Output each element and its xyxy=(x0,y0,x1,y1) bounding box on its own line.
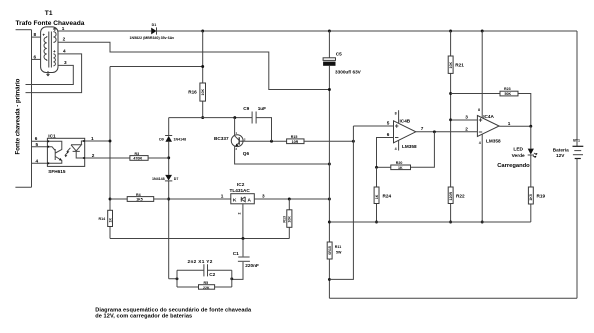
diode D9 xyxy=(159,118,186,142)
svg-text:Bateria: Bateria xyxy=(553,147,569,152)
svg-text:R16: R16 xyxy=(188,90,197,95)
svg-text:8: 8 xyxy=(395,112,397,116)
wire D7 down to parallel block xyxy=(169,181,177,279)
wire node R16 bottom junction xyxy=(201,116,204,119)
svg-text:R21: R21 xyxy=(455,62,464,67)
capacitor C5 (electrolytic) xyxy=(323,31,362,242)
wire left rail bottom tail xyxy=(15,186,31,188)
svg-text:R15: R15 xyxy=(291,135,298,139)
op-amp IC4B xyxy=(394,110,417,151)
svg-text:10R: 10R xyxy=(292,140,299,144)
svg-text:120R: 120R xyxy=(449,192,453,201)
svg-text:5: 5 xyxy=(387,121,390,126)
svg-text:2: 2 xyxy=(92,153,95,158)
svg-text:1N4148: 1N4148 xyxy=(174,138,187,142)
svg-text:R23: R23 xyxy=(504,87,511,91)
svg-text:R13: R13 xyxy=(283,216,287,223)
resistor R16 xyxy=(188,31,205,118)
svg-text:3300uf/ 63V: 3300uf/ 63V xyxy=(335,69,362,74)
svg-text:C5: C5 xyxy=(336,52,342,57)
svg-text:0R15: 0R15 xyxy=(328,246,332,255)
svg-text:5W: 5W xyxy=(336,251,342,255)
wire from x110 vertical to R16 vertical y=66 xyxy=(110,66,203,68)
resistor R4 xyxy=(127,193,154,202)
resistor R23 xyxy=(500,87,531,126)
svg-text:+: + xyxy=(53,49,56,54)
optocoupler IC1 xyxy=(32,133,85,174)
svg-text:220nF: 220nF xyxy=(245,263,259,268)
svg-text:LM358: LM358 xyxy=(402,144,417,149)
wire IC4B +in pin 5 xyxy=(353,125,393,127)
svg-text:R22: R22 xyxy=(456,193,465,198)
svg-text:470R: 470R xyxy=(133,157,142,161)
svg-text:6: 6 xyxy=(35,136,38,141)
svg-text:IC4B: IC4B xyxy=(400,118,411,123)
svg-text:3: 3 xyxy=(64,60,67,65)
svg-text:1: 1 xyxy=(91,136,94,141)
svg-text:1K5: 1K5 xyxy=(136,198,143,202)
wire R4 line y=199 xyxy=(109,198,112,201)
wire mid ground rail y=222 xyxy=(329,221,530,223)
svg-text:3: 3 xyxy=(465,115,468,120)
svg-text:Trafo Fonte Chaveada: Trafo Fonte Chaveada xyxy=(16,20,85,27)
svg-text:8: 8 xyxy=(34,32,37,37)
svg-text:8: 8 xyxy=(478,108,480,112)
svg-text:4: 4 xyxy=(395,147,397,151)
svg-text:2: 2 xyxy=(465,126,468,131)
svg-text:5: 5 xyxy=(36,142,39,147)
svg-text:LED: LED xyxy=(513,146,523,152)
svg-text:D7: D7 xyxy=(174,177,179,181)
transformer T1 xyxy=(41,27,58,76)
svg-text:R19: R19 xyxy=(537,193,546,198)
svg-text:D1: D1 xyxy=(152,23,157,27)
svg-text:+: + xyxy=(42,32,45,37)
svg-text:12V: 12V xyxy=(556,153,565,158)
svg-text:1K: 1K xyxy=(375,194,379,199)
svg-text:R4: R4 xyxy=(136,193,141,197)
svg-text:T1: T1 xyxy=(45,10,53,17)
svg-text:Diagrama esquemático do secund: Diagrama esquemático do secundário de fo… xyxy=(95,307,252,313)
TL431 IC2 xyxy=(221,182,331,238)
svg-text:7: 7 xyxy=(421,126,424,131)
svg-text:Verde: Verde xyxy=(512,153,525,159)
wire Q6 collector to R15 xyxy=(241,140,286,142)
wire T1 pin 8 stub xyxy=(32,36,41,38)
diode D7 xyxy=(152,175,178,181)
svg-text:6: 6 xyxy=(387,132,390,137)
svg-text:4: 4 xyxy=(36,159,39,164)
wire D9 to D7 xyxy=(168,142,170,175)
svg-text:R11: R11 xyxy=(335,245,341,249)
svg-text:C9: C9 xyxy=(243,106,249,111)
svg-text:2n2 X1 Y2: 2n2 X1 Y2 xyxy=(188,259,213,264)
wire IC4B output pin 7 xyxy=(416,131,478,133)
svg-text:R3: R3 xyxy=(135,152,140,156)
svg-text:Q6: Q6 xyxy=(243,151,250,156)
diode D1 xyxy=(130,23,175,40)
svg-text:2: 2 xyxy=(63,37,66,42)
svg-text:R20: R20 xyxy=(396,161,403,165)
wire T1 pin 6 stub xyxy=(32,58,41,60)
svg-text:Fonte chaveada - primário: Fonte chaveada - primário xyxy=(15,78,22,154)
resistor R24 xyxy=(374,167,391,223)
svg-text:IC2: IC2 xyxy=(237,182,245,187)
svg-text:22K: 22K xyxy=(203,286,210,290)
transistor Q6 BC337 xyxy=(214,118,331,166)
svg-text:R14: R14 xyxy=(99,217,106,221)
svg-text:de 12V, com carregador de bate: de 12V, com carregador de baterias xyxy=(95,314,192,320)
resistor R14 xyxy=(99,210,113,226)
svg-text:1: 1 xyxy=(508,121,511,126)
LED verde xyxy=(497,126,537,187)
resistor R22 xyxy=(448,187,465,223)
svg-text:1K: 1K xyxy=(398,166,403,170)
svg-text:1K: 1K xyxy=(109,218,113,223)
capacitor C2 with resistor R5 parallel block xyxy=(176,259,234,290)
wire IC4A output pin 1 xyxy=(499,125,531,127)
resistor R11 5W xyxy=(327,242,342,298)
op-amp IC4A xyxy=(477,31,501,223)
svg-text:1: 1 xyxy=(221,193,224,198)
svg-text:1K5: 1K5 xyxy=(529,194,533,201)
svg-text:Carregando: Carregando xyxy=(497,163,530,169)
svg-text:10K: 10K xyxy=(201,89,205,96)
svg-text:1N5822 (MBR340) 35v 6Av: 1N5822 (MBR340) 35v 6Av xyxy=(130,36,175,40)
svg-text:C2: C2 xyxy=(209,272,215,277)
svg-text:50K: 50K xyxy=(505,92,512,96)
wire IC4B -in pin 6 xyxy=(377,138,394,168)
svg-text:IC1: IC1 xyxy=(48,133,56,138)
svg-text:1uF: 1uF xyxy=(258,106,266,111)
svg-text:LM358: LM358 xyxy=(486,139,501,144)
svg-text:2: 2 xyxy=(237,213,241,215)
wire bottom rail xyxy=(329,297,577,299)
svg-text:3: 3 xyxy=(262,193,265,198)
svg-text:10K: 10K xyxy=(288,216,292,223)
resistor R13 xyxy=(110,199,292,239)
resistor R20 feedback xyxy=(375,132,434,170)
svg-text:1N4148: 1N4148 xyxy=(152,177,165,181)
battery BT1 12V xyxy=(553,31,584,298)
resistor R19 xyxy=(528,187,545,222)
wire y=117.6 D9 to C9 xyxy=(169,117,252,119)
svg-text:SFH615: SFH615 xyxy=(48,169,66,174)
svg-text:BC337: BC337 xyxy=(214,136,229,141)
svg-text:C1: C1 xyxy=(233,251,239,256)
wire IC4A +in pin 3 xyxy=(449,118,452,121)
svg-text:6: 6 xyxy=(34,55,37,60)
svg-text:4: 4 xyxy=(63,49,66,54)
wire R23 line y=93 xyxy=(449,92,452,95)
svg-text:1: 1 xyxy=(62,26,65,31)
resistor R3 xyxy=(130,152,169,161)
svg-text:BT1: BT1 xyxy=(573,138,580,142)
resistor R15 xyxy=(287,135,355,144)
svg-text:R24: R24 xyxy=(383,193,392,198)
resistor R21 xyxy=(448,31,464,187)
wire vertical x=110 xyxy=(110,67,289,239)
svg-text:R5: R5 xyxy=(204,281,209,285)
wire top rail xyxy=(157,30,578,32)
wire sense line x=353.4 to R11 bottom xyxy=(329,126,353,279)
svg-text:IC4A: IC4A xyxy=(483,114,494,119)
svg-text:TL431AC: TL431AC xyxy=(230,188,251,193)
wire left vertical rail x=31.5 xyxy=(31,30,33,188)
svg-text:4: 4 xyxy=(479,141,481,145)
capacitor C1 xyxy=(232,237,259,279)
svg-text:D9: D9 xyxy=(159,138,164,142)
svg-text:10K: 10K xyxy=(449,62,453,69)
capacitor C9 xyxy=(243,106,271,141)
node primary input stub top-left xyxy=(16,29,32,31)
